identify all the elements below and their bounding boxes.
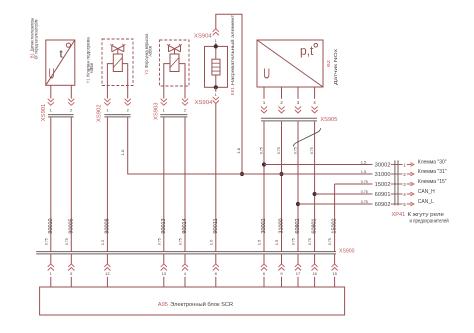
pin 15 XS900 — [332, 254, 338, 287]
wire B2 pin3 lead — [297, 87, 299, 99]
wire 90013 — [156, 117, 166, 251]
svg-text:15002: 15002 — [375, 182, 391, 188]
pin 2 XP41 — [403, 172, 413, 177]
svg-text:Клемма "15": Клемма "15" — [418, 179, 447, 185]
svg-text:0.75: 0.75 — [292, 147, 297, 155]
svg-text:12: 12 — [105, 271, 110, 276]
junction 60902 bus — [296, 202, 300, 206]
svg-text:Датчик NOx: Датчик NOx — [333, 48, 339, 85]
heating element EK1 — [205, 46, 228, 87]
svg-text:31000: 31000 — [375, 172, 391, 178]
wire 90011 — [208, 104, 218, 252]
svg-text:60901: 60901 — [375, 192, 391, 198]
label Y2 Форсунка впрыска AdBlue — [144, 33, 154, 74]
connector XS901 — [41, 99, 75, 122]
wire B1 pin1 lead — [50, 85, 52, 98]
connector XS900 — [36, 248, 354, 254]
svg-text:0.75: 0.75 — [258, 147, 263, 155]
svg-text:15002: 15002 — [332, 218, 338, 233]
junction 60901 bus — [313, 192, 317, 196]
svg-text:t: t — [59, 49, 63, 61]
svg-text:XS900: XS900 — [339, 248, 355, 254]
sensor B2 — [257, 40, 323, 87]
net 31000 bus — [128, 169, 403, 178]
junction EK1 bypass to net 31000 — [240, 172, 244, 176]
svg-text:1.5: 1.5 — [361, 159, 367, 164]
svg-text:0.75: 0.75 — [309, 147, 314, 155]
svg-text:0.75: 0.75 — [327, 238, 332, 246]
svg-text:XP41: XP41 — [392, 212, 406, 218]
svg-text:CAN_H: CAN_H — [418, 189, 435, 195]
svg-text:0.75: 0.75 — [361, 179, 369, 184]
svg-text:1.0: 1.0 — [236, 147, 241, 154]
svg-text:CAN_L: CAN_L — [418, 199, 434, 205]
wire 90014 — [178, 117, 188, 251]
ECU A95 — [40, 287, 345, 315]
svg-text:XS904: XS904 — [194, 33, 212, 39]
wire 60901 from XS905 pin4 — [314, 122, 316, 252]
connector XP41 — [395, 160, 398, 205]
connector XS905 — [261, 100, 338, 123]
pin 13 XS900 — [161, 254, 167, 287]
pin 5 XP41 — [403, 202, 413, 207]
svg-text:p,t: p,t — [300, 43, 314, 58]
svg-text:и предохранителей: и предохранителей — [410, 217, 449, 224]
valve Y1 — [102, 39, 133, 99]
wire 90010 — [43, 117, 53, 251]
svg-text:0.75: 0.75 — [361, 189, 369, 194]
wire 15002 vertical — [327, 184, 337, 252]
junction 31000 bus — [279, 172, 283, 176]
net 60902 bus — [298, 199, 403, 208]
connector XS902 — [97, 99, 131, 122]
wire B2 pin4 lead — [314, 87, 316, 99]
wire B1 pin2 lead — [70, 85, 72, 98]
svg-text:1.0: 1.0 — [120, 149, 125, 156]
svg-text:ОГ перед катализатором: ОГ перед катализатором — [33, 20, 39, 60]
junction EK1 bottom terminal — [214, 85, 218, 89]
svg-text:B2: B2 — [326, 60, 332, 67]
svg-text:0.75: 0.75 — [361, 199, 369, 204]
svg-text:90008: 90008 — [104, 218, 110, 233]
svg-text:1.5: 1.5 — [257, 239, 262, 245]
svg-text:EK1: EK1 — [230, 87, 236, 95]
svg-text:17: 17 — [296, 271, 301, 276]
svg-text:U: U — [49, 66, 55, 82]
svg-text:XS903: XS903 — [154, 102, 160, 120]
junction 30002 bus — [262, 162, 266, 166]
svg-text:XS901: XS901 — [41, 104, 47, 122]
pin 5 XS900 — [68, 254, 74, 287]
svg-text:60902: 60902 — [375, 202, 391, 208]
connector XS904 top half — [194, 29, 219, 43]
svg-text:90013: 90013 — [161, 218, 167, 233]
svg-text:AdBlue: AdBlue — [147, 45, 153, 56]
pin 9 XS900 — [278, 254, 284, 287]
svg-text:Электронный блок SCR: Электронный блок SCR — [170, 301, 233, 308]
wire EK1 top feed — [216, 14, 242, 173]
pin 4 XS900 — [182, 254, 188, 287]
svg-text:AdBlue: AdBlue — [89, 62, 95, 73]
wire B2 pin1 lead — [263, 87, 265, 99]
svg-text:1.5: 1.5 — [361, 169, 367, 174]
junction EK1 top terminal — [214, 44, 218, 48]
svg-text:90005: 90005 — [68, 218, 74, 233]
svg-text:15: 15 — [332, 271, 337, 276]
wire 60902 from XS905 pin3 — [297, 122, 299, 252]
pin 6 XS900 — [261, 254, 267, 287]
label B2 Датчик NOx — [326, 48, 339, 85]
pin 16 XS900 — [312, 254, 318, 287]
svg-text:90014: 90014 — [182, 218, 188, 233]
wire Y1 to net 31000 — [120, 117, 264, 174]
svg-text:XS904: XS904 — [195, 100, 213, 106]
wire 90005 — [64, 117, 74, 251]
svg-text:XS905: XS905 — [320, 117, 337, 123]
pin 4 XP41 — [403, 192, 413, 197]
wire XS904 to EK1 — [215, 43, 217, 47]
svg-text:0.75: 0.75 — [178, 238, 183, 246]
svg-text:Клемма "30": Клемма "30" — [418, 160, 447, 166]
svg-text:0.75: 0.75 — [276, 147, 281, 155]
svg-text:1.5: 1.5 — [274, 239, 279, 245]
svg-text:31000: 31000 — [279, 218, 285, 233]
net 15002 bus — [335, 179, 403, 188]
svg-text:90010: 90010 — [48, 218, 54, 233]
svg-text:Y1: Y1 — [86, 78, 92, 83]
svg-text:1.0: 1.0 — [208, 239, 213, 245]
net 60901 bus — [315, 189, 403, 198]
pin 1 XS900 — [48, 254, 54, 287]
svg-text:0.75: 0.75 — [307, 238, 312, 246]
label B1 Датчик температуры ОГ перед катализатором — [30, 17, 40, 59]
svg-text:К жгуту реле: К жгуту реле — [408, 212, 445, 218]
pin 17 XS900 — [295, 254, 301, 287]
svg-text:Нагревательный элемент: Нагревательный элемент — [229, 14, 236, 85]
svg-text:U: U — [263, 66, 270, 82]
wire 30002 from XS905 pin1 — [263, 122, 265, 252]
label EK1 Нагревательный элемент — [229, 14, 236, 95]
pin 3 XP41 — [403, 182, 413, 187]
svg-text:16: 16 — [312, 271, 317, 276]
wire 31000 from XS905 pin2 — [281, 122, 283, 252]
pin 8 XS900 — [213, 254, 219, 287]
pin 12 XS900 — [104, 254, 110, 287]
svg-text:0.75: 0.75 — [43, 238, 48, 246]
sensor B1 — [46, 40, 75, 85]
label Y1 Клапан подогрева AdBlue — [86, 37, 96, 83]
connector XS904 bottom half — [195, 92, 219, 106]
svg-text:Y2: Y2 — [144, 69, 150, 74]
svg-text:A95: A95 — [158, 302, 168, 308]
net 30002 bus — [264, 159, 403, 168]
connector XS903 — [154, 99, 189, 120]
wire 90008 — [100, 117, 110, 251]
svg-text:30002: 30002 — [375, 162, 391, 168]
svg-text:0.75: 0.75 — [156, 238, 161, 246]
pin 1 XP41 — [403, 162, 413, 167]
svg-text:0.75: 0.75 — [64, 238, 69, 246]
wire B2 pin2 lead — [281, 87, 283, 99]
svg-text:1.0: 1.0 — [100, 239, 105, 245]
svg-text:60902: 60902 — [295, 218, 301, 233]
twisted pair mark CAN wires — [293, 128, 321, 146]
svg-text:90011: 90011 — [213, 218, 219, 233]
label XP41 К жгуту реле и предохранителей — [392, 212, 449, 224]
svg-text:13: 13 — [162, 271, 167, 276]
svg-text:0.75: 0.75 — [291, 238, 296, 246]
injector Y2 — [160, 40, 190, 99]
svg-text:Клемма "31": Клемма "31" — [418, 169, 447, 175]
svg-text:30002: 30002 — [261, 218, 267, 233]
wire EK1 upper stub — [215, 87, 217, 92]
svg-text:XS902: XS902 — [97, 104, 103, 122]
svg-text:60901: 60901 — [312, 218, 318, 233]
